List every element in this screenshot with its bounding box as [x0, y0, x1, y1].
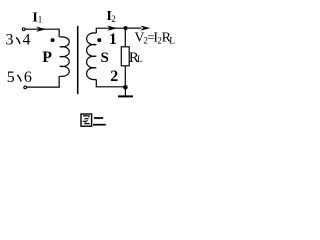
ground	[118, 87, 133, 96]
label RL	[129, 50, 143, 66]
图 inner 冬 strokes	[83, 115, 86, 117]
arrow V2 (voltage direction stub)	[128, 26, 151, 31]
wire: secondary top lead and horizontal to node	[96, 28, 125, 33]
svg-text:2: 2	[110, 68, 118, 85]
图 outer box	[81, 114, 92, 126]
wire: node 1 down to resistor	[124, 28, 126, 46]
wire: bottom-left horizontal to terminal	[27, 86, 60, 88]
svg-text:4: 4	[23, 31, 31, 48]
labels 5、6	[7, 69, 32, 86]
junction node (top)	[124, 26, 128, 30]
svg-text:1: 1	[38, 15, 43, 25]
label V2=I2RL	[134, 30, 175, 47]
svg-text:L: L	[137, 55, 143, 65]
resistor RL (box)	[121, 47, 129, 66]
label I1	[32, 10, 42, 25]
polarity dot (primary)	[51, 38, 55, 42]
terminal 5-6 (open circle)	[24, 86, 27, 89]
wire: primary top lead	[58, 29, 60, 37]
label I2	[106, 9, 115, 24]
labels 3、4	[6, 31, 31, 48]
polarity dot (secondary)	[97, 38, 101, 42]
wire: top-left horizontal from terminal to primary	[25, 28, 59, 30]
svg-text:6: 6	[24, 69, 32, 86]
arrow I2 (current direction)	[107, 26, 117, 31]
junction node (bottom)	[123, 85, 128, 90]
wire: resistor bottom to bottom junction	[124, 66, 126, 87]
svg-text:L: L	[169, 37, 175, 47]
inductor S (secondary winding)	[87, 33, 97, 80]
svg-text:3: 3	[6, 31, 14, 48]
svg-text:2: 2	[111, 14, 116, 24]
svg-text:5: 5	[7, 69, 15, 86]
transformer core	[77, 26, 79, 94]
二 strokes	[94, 117, 103, 119]
arrow I1 (current direction)	[36, 27, 46, 32]
inductor P (primary winding)	[60, 37, 70, 77]
svg-text:P: P	[42, 49, 52, 66]
svg-text:S: S	[101, 50, 109, 66]
wire: primary bottom lead	[58, 76, 60, 87]
wire: secondary bottom lead and horizontal to junction	[96, 80, 125, 87]
terminal 3-4 (open circle)	[22, 28, 25, 31]
svg-text:1: 1	[109, 31, 117, 48]
caption "图二" (Figure 2)	[81, 114, 106, 126]
